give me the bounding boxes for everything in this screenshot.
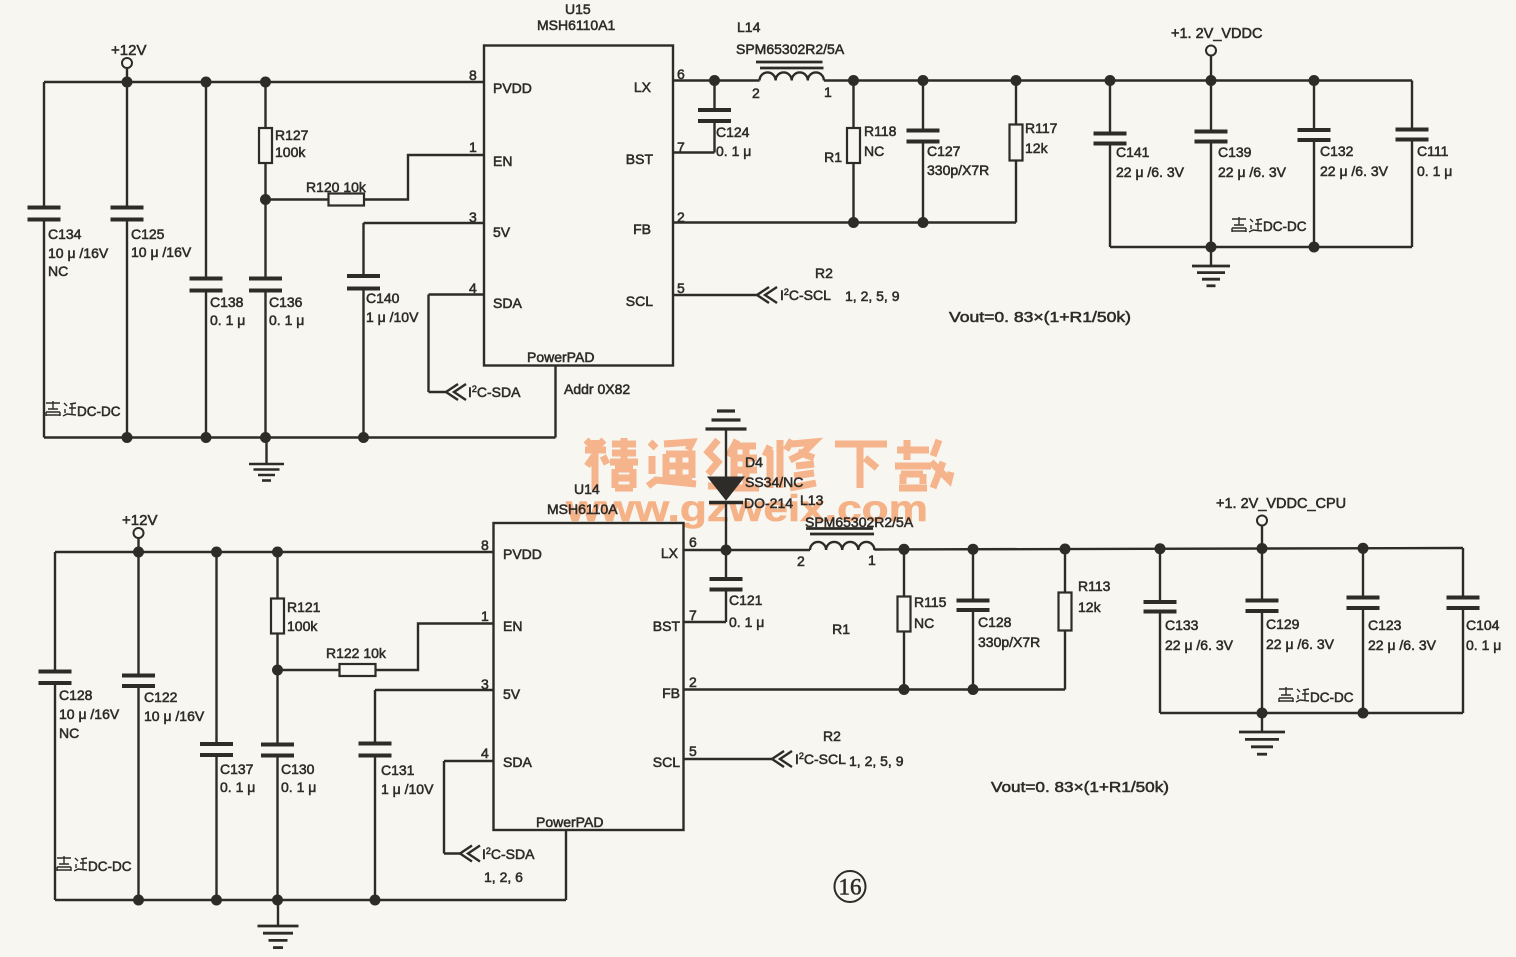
svg-text:6: 6: [689, 534, 697, 550]
node junction R127 bus: [260, 77, 271, 88]
svg-text:1: 1: [868, 552, 876, 568]
svg-text:1: 1: [469, 139, 477, 155]
ground symbol above D4 (inverted): [725, 431, 727, 478]
wire column C139: [1210, 81, 1212, 132]
svg-text:NC: NC: [48, 263, 68, 279]
resistor R122 10k: [340, 664, 376, 676]
svg-text:0. 1 μ: 0. 1 μ: [729, 614, 764, 630]
node junction C138 bus: [201, 77, 212, 88]
svg-text:Vout=0. 83×(1+R1/50k): Vout=0. 83×(1+R1/50k): [949, 309, 1131, 326]
svg-text:C130: C130: [281, 761, 315, 777]
svg-text:3: 3: [481, 676, 489, 692]
capacitor C131: [359, 742, 392, 746]
svg-text:BST: BST: [626, 151, 654, 167]
node junction C123 top: [1358, 543, 1369, 554]
capacitor C125: [111, 206, 144, 210]
svg-text:C139: C139: [1218, 144, 1252, 160]
node junction C139 top: [1206, 75, 1217, 86]
wire bottom output rail (bottom): [1160, 712, 1463, 714]
wire R121 top lead: [276, 552, 278, 599]
svg-text:0. 1 μ: 0. 1 μ: [1466, 637, 1501, 653]
svg-text:C129: C129: [1266, 616, 1300, 632]
wire 5V pin to C140: [364, 222, 485, 224]
svg-text:C123: C123: [1368, 617, 1402, 633]
node junction C127/FB: [918, 217, 929, 228]
wire R118 bottom lead: [852, 163, 854, 223]
wire bottom output rail (top): [1110, 246, 1412, 248]
node junction C129 top: [1257, 543, 1268, 554]
wire column C136: [264, 200, 266, 279]
svg-text:LX: LX: [661, 545, 679, 561]
node junction C124/LX: [709, 75, 720, 86]
svg-text:C140: C140: [366, 290, 400, 306]
svg-text:16: 16: [839, 875, 862, 900]
wire column C130: [276, 670, 278, 745]
label 靠近DC-DC (bottom output): [1279, 687, 1309, 702]
capacitor C128 330p/X7R: [957, 599, 990, 603]
svg-text:DC-DC: DC-DC: [1263, 219, 1307, 234]
wire column C133: [1159, 549, 1161, 602]
svg-text:0. 1 μ: 0. 1 μ: [269, 312, 304, 328]
svg-text:R122 10k: R122 10k: [326, 645, 387, 661]
wire column C131: [374, 690, 376, 744]
wire FB rail (bottom): [684, 688, 1066, 690]
capacitor C140: [347, 274, 380, 278]
svg-text:BST: BST: [653, 618, 681, 634]
wire +12V stem: [126, 68, 128, 82]
svg-text:0. 1 μ: 0. 1 μ: [1417, 163, 1452, 179]
I2C-SCL input arrow (top): [757, 287, 769, 303]
svg-text:4: 4: [481, 745, 489, 761]
svg-text:5V: 5V: [503, 686, 521, 702]
svg-text:I2C-SDA: I2C-SDA: [482, 846, 535, 862]
svg-text:22 μ /6. 3V: 22 μ /6. 3V: [1368, 637, 1437, 653]
capacitor C136: [249, 277, 282, 281]
node +12V terminal (bottom): [134, 528, 144, 538]
wire SCL pin (bottom): [684, 758, 774, 760]
wire C127 leads: [922, 81, 924, 131]
capacitor C134: [28, 206, 61, 210]
svg-text:Vout=0. 83×(1+R1/50k): Vout=0. 83×(1+R1/50k): [991, 779, 1169, 796]
svg-text:L13: L13: [800, 492, 824, 508]
label 靠近DC-DC (top-left, simplified strokes): [46, 401, 76, 416]
node junction C140 rail: [358, 432, 369, 443]
svg-text:C128: C128: [59, 687, 93, 703]
svg-text:NC: NC: [914, 615, 934, 631]
capacitor C133: [1144, 600, 1177, 604]
svg-text:22 μ /6. 3V: 22 μ /6. 3V: [1116, 164, 1185, 180]
svg-text:DO-214: DO-214: [744, 495, 793, 511]
wire column C141: [1109, 81, 1111, 134]
capacitor C132: [1298, 128, 1331, 132]
svg-text:1 μ /10V: 1 μ /10V: [381, 781, 434, 797]
svg-text:R127: R127: [275, 127, 309, 143]
svg-text:0. 1 μ: 0. 1 μ: [281, 779, 316, 795]
capacitor C129: [1246, 599, 1279, 603]
node junction C128b top: [968, 544, 979, 555]
svg-text:SCL: SCL: [653, 754, 680, 770]
wire column C125: [126, 82, 128, 208]
resistor R117 12k: [1010, 125, 1023, 161]
svg-text:8: 8: [469, 67, 477, 83]
capacitor C128 10u: [39, 670, 72, 674]
resistor R118 (NC): [847, 128, 860, 163]
svg-text:DC-DC: DC-DC: [77, 404, 121, 419]
svg-text:330p/X7R: 330p/X7R: [978, 634, 1040, 650]
svg-text:C141: C141: [1116, 144, 1150, 160]
node junction C139 bottom: [1206, 242, 1217, 253]
wire column C123: [1362, 548, 1364, 597]
node junction R127/R120: [260, 194, 271, 205]
svg-text:1: 1: [824, 84, 832, 100]
wire column C111: [1411, 81, 1413, 130]
node junction C136 rail: [260, 432, 271, 443]
svg-text:12k: 12k: [1025, 140, 1049, 156]
svg-text:SDA: SDA: [503, 754, 532, 770]
node junction C132 top: [1309, 75, 1320, 86]
svg-text:C136: C136: [269, 294, 303, 310]
I2C-SCL input arrow (bottom): [772, 751, 784, 767]
capacitor C141: [1094, 132, 1127, 136]
capacitor C122: [122, 674, 155, 678]
svg-text:22 μ /6. 3V: 22 μ /6. 3V: [1320, 163, 1389, 179]
svg-text:100k: 100k: [287, 618, 318, 634]
svg-text:EN: EN: [503, 618, 522, 634]
svg-text:C122: C122: [144, 689, 178, 705]
node junction C132 bottom: [1309, 242, 1320, 253]
wire R127 top lead: [264, 82, 266, 128]
node junction C133 top: [1155, 543, 1166, 554]
IC U14 MSH6110A box: [494, 523, 684, 830]
svg-text:SCL: SCL: [626, 293, 653, 309]
node junction R118/LX: [848, 75, 859, 86]
svg-text:R2: R2: [815, 265, 833, 281]
wire +12V bus (bottom): [55, 551, 494, 553]
svg-text:5: 5: [689, 743, 697, 759]
svg-text:U15: U15: [565, 1, 591, 17]
node junction C127 top: [918, 75, 929, 86]
svg-text:R2: R2: [823, 728, 841, 744]
wire R115 top lead: [903, 549, 905, 596]
wire C128b leads: [972, 549, 974, 600]
svg-text:FB: FB: [633, 221, 651, 237]
svg-text:C111: C111: [1417, 143, 1449, 159]
svg-text:C137: C137: [220, 761, 254, 777]
svg-text:7: 7: [689, 607, 697, 623]
svg-text:Addr 0X82: Addr 0X82: [564, 381, 630, 397]
node junction C141 top: [1105, 75, 1116, 86]
wire +12V stem (bottom): [137, 538, 139, 552]
svg-text:R121: R121: [287, 599, 321, 615]
svg-text:SS34/NC: SS34/NC: [745, 474, 803, 490]
svg-text:5: 5: [677, 280, 685, 296]
svg-text:100k: 100k: [275, 144, 306, 160]
svg-text:22 μ /6. 3V: 22 μ /6. 3V: [1266, 636, 1335, 652]
svg-text:NC: NC: [864, 143, 884, 159]
svg-text:PowerPAD: PowerPAD: [527, 349, 594, 365]
ground symbol output (top): [1210, 247, 1212, 265]
svg-text:10 μ /16V: 10 μ /16V: [131, 244, 192, 260]
node junction R118/FB: [848, 217, 859, 228]
svg-text:C125: C125: [131, 226, 165, 242]
svg-text:C132: C132: [1320, 143, 1354, 159]
node junction +12V bus (bottom): [133, 547, 144, 558]
capacitor C123: [1347, 596, 1380, 600]
svg-text:I2C-SCL: I2C-SCL: [795, 751, 846, 767]
svg-text:10 μ /16V: 10 μ /16V: [48, 245, 109, 261]
node junction R117 top: [1011, 75, 1022, 86]
svg-text:1, 2, 5, 9: 1, 2, 5, 9: [845, 288, 900, 304]
wire 5V pin to C131: [375, 689, 494, 691]
svg-text:R1: R1: [824, 149, 842, 165]
svg-text:R117: R117: [1025, 120, 1058, 136]
node junction +12V/bus: [122, 77, 133, 88]
wire column C129: [1261, 549, 1263, 601]
resistor R113 12k: [1059, 593, 1072, 631]
svg-text:2: 2: [689, 674, 697, 690]
capacitor C138: [190, 277, 223, 281]
resistor R115 (NC): [898, 597, 911, 632]
svg-text:NC: NC: [59, 725, 79, 741]
svg-text:C134: C134: [48, 226, 82, 242]
wire R115 bottom lead: [903, 632, 905, 690]
node junction R115/FB: [899, 684, 910, 695]
svg-text:MSH6110A: MSH6110A: [547, 501, 618, 517]
svg-text:5V: 5V: [493, 224, 511, 240]
wire C121 bottom / BST: [725, 590, 727, 623]
capacitor C111: [1396, 128, 1429, 132]
ground symbol output (bottom): [1261, 713, 1263, 731]
svg-text:PowerPAD: PowerPAD: [536, 814, 603, 830]
svg-text:2: 2: [797, 553, 805, 569]
ground symbol below rail (top circuit): [265, 438, 267, 464]
node junction R113 top: [1060, 544, 1071, 555]
diode D4 SS34/NC: [708, 477, 744, 500]
capacitor C139: [1195, 130, 1228, 134]
svg-text:R115: R115: [914, 594, 947, 610]
node junction R121/R122: [272, 665, 283, 676]
wire terminal stem (CPU): [1261, 526, 1263, 549]
wire R120 left lead: [266, 198, 329, 200]
wire column C104: [1462, 548, 1464, 598]
label 靠近DC-DC (top output): [1232, 217, 1262, 232]
svg-text:FB: FB: [662, 685, 680, 701]
wire R118 top lead: [852, 81, 854, 129]
svg-text:C138: C138: [210, 294, 244, 310]
svg-text:R1: R1: [832, 621, 850, 637]
inductor L14 SPM65302R2/5A: [760, 72, 824, 80]
wire C124 bottom lead / BST: [713, 121, 715, 153]
node junction C131 rail: [370, 895, 381, 906]
capacitor C127 330p/X7R: [907, 129, 940, 133]
svg-text:R118: R118: [864, 123, 897, 139]
resistor R121 100k: [271, 599, 284, 634]
wire C124 top lead: [713, 81, 715, 111]
wire FB rail (top): [673, 221, 1016, 223]
svg-text:+12V: +12V: [111, 42, 146, 59]
node junction C137 rail: [211, 895, 222, 906]
node junction D4/C121/LX: [721, 545, 732, 556]
svg-text:22 μ /6. 3V: 22 μ /6. 3V: [1165, 637, 1234, 653]
svg-text:SPM65302R2/5A: SPM65302R2/5A: [736, 41, 845, 57]
svg-text:+12V: +12V: [122, 512, 157, 529]
wire D4 to LX node: [725, 503, 727, 551]
ground symbol below rail (bottom circuit): [277, 900, 279, 925]
wire LX output (top): [673, 79, 760, 81]
node junction C128b/FB: [968, 684, 979, 695]
svg-text:10 μ /16V: 10 μ /16V: [59, 706, 120, 722]
svg-text:C128: C128: [978, 614, 1012, 630]
I2C-SDA input arrow (bottom): [460, 846, 472, 862]
svg-text:R113: R113: [1078, 578, 1111, 594]
wire column C140: [362, 223, 364, 276]
wire R122 to EN pin: [376, 624, 494, 671]
svg-text:I2C-SDA: I2C-SDA: [468, 384, 521, 400]
capacitor C104: [1447, 596, 1480, 600]
svg-text:10 μ /16V: 10 μ /16V: [144, 708, 205, 724]
svg-text:PVDD: PVDD: [493, 80, 532, 96]
svg-text:DC-DC: DC-DC: [88, 859, 132, 874]
svg-text:0. 1 μ: 0. 1 μ: [716, 143, 751, 159]
wire R127 bottom lead: [264, 163, 266, 200]
node +12V terminal (top): [122, 58, 132, 68]
wire column C132: [1313, 81, 1315, 131]
label 靠近DC-DC (bottom-left): [57, 856, 87, 871]
svg-text:LX: LX: [634, 79, 652, 95]
node junction C129 bottom: [1257, 708, 1268, 719]
svg-text:1: 1: [481, 608, 489, 624]
resistor R120 10k: [329, 194, 365, 206]
wire terminal stem: [1210, 56, 1212, 81]
svg-text:DC-DC: DC-DC: [1310, 690, 1354, 705]
svg-text:I2C-SCL: I2C-SCL: [780, 287, 831, 303]
svg-text:+1. 2V_VDDC_CPU: +1. 2V_VDDC_CPU: [1216, 496, 1346, 512]
node junction C125 rail: [122, 432, 133, 443]
capacitor C121: [710, 577, 743, 581]
wire SCL pin (top): [673, 294, 758, 296]
wire bottom ground rail (bottom circuit): [55, 899, 566, 901]
watermark line1: simplified strokes for Chinese chars: [585, 438, 951, 490]
svg-text:1, 2, 5, 9: 1, 2, 5, 9: [849, 753, 904, 769]
svg-text:12k: 12k: [1078, 599, 1102, 615]
svg-text:0. 1 μ: 0. 1 μ: [220, 779, 255, 795]
svg-text:R120 10k: R120 10k: [306, 179, 367, 195]
svg-text:3: 3: [469, 209, 477, 225]
capacitor C130: [261, 743, 294, 747]
node junction C137 bus: [211, 547, 222, 558]
wire column C122: [137, 552, 139, 676]
wire R113 leads: [1064, 549, 1066, 593]
I2C-SDA input arrow (top): [446, 384, 458, 400]
wire PowerPAD pin to ground rail: [554, 366, 556, 438]
svg-text:C124: C124: [716, 124, 750, 140]
svg-text:22 μ /6. 3V: 22 μ /6. 3V: [1218, 164, 1287, 180]
IC U15 MSH6110A1 box: [484, 46, 673, 366]
wire SDA routing (bottom): [444, 760, 494, 762]
svg-text:C104: C104: [1466, 617, 1500, 633]
svg-text:8: 8: [481, 537, 489, 553]
node junction C122 rail: [133, 895, 144, 906]
wire R121 bottom lead: [276, 634, 278, 671]
svg-text:SPM65302R2/5A: SPM65302R2/5A: [805, 514, 914, 530]
wire column C138: [205, 82, 207, 279]
wire LX output (bottom): [684, 549, 811, 551]
svg-text:SDA: SDA: [493, 295, 522, 311]
svg-text:PVDD: PVDD: [503, 546, 542, 562]
node junction C130 rail: [272, 895, 283, 906]
svg-text:+1. 2V_VDDC: +1. 2V_VDDC: [1171, 26, 1262, 42]
wire left column C128: [54, 552, 56, 672]
wire PowerPAD pin to rail (bottom): [565, 830, 567, 900]
svg-text:U14: U14: [574, 481, 600, 497]
wire R120 to EN pin: [364, 155, 484, 200]
capacitor C137: [200, 742, 233, 746]
node junction C138 rail: [201, 432, 212, 443]
svg-text:C121: C121: [729, 592, 763, 608]
node +1.2V_VDDC terminal: [1206, 46, 1216, 56]
svg-text:C133: C133: [1165, 617, 1199, 633]
wire R122 left lead: [278, 669, 340, 671]
svg-text:C127: C127: [927, 143, 961, 159]
svg-text:1 μ /10V: 1 μ /10V: [366, 309, 419, 325]
wire top +12V bus: [44, 81, 484, 83]
node junction R115/LX: [899, 544, 910, 555]
wire SDA routing to I2C-SDA: [429, 293, 485, 295]
inductor L13 SPM65302R2/5A: [810, 542, 874, 550]
node junction C123 bottom: [1358, 708, 1369, 719]
node +1.2V_VDDC_CPU terminal: [1257, 516, 1267, 526]
wire bottom ground rail (top circuit): [44, 436, 556, 438]
resistor R127 100k: [259, 128, 272, 163]
svg-text:D4: D4: [745, 454, 763, 470]
wire C121 top lead: [725, 550, 727, 579]
svg-text:330p/X7R: 330p/X7R: [927, 162, 989, 178]
capacitor C124: [698, 108, 731, 112]
page number 16 circled: [835, 871, 866, 902]
svg-text:1, 2, 6: 1, 2, 6: [484, 869, 523, 885]
svg-text:4: 4: [469, 280, 477, 296]
wire R117 leads: [1015, 81, 1017, 125]
svg-text:0. 1 μ: 0. 1 μ: [210, 312, 245, 328]
svg-text:2: 2: [752, 85, 760, 101]
svg-text:MSH6110A1: MSH6110A1: [537, 17, 616, 33]
node junction R121 bus: [272, 547, 283, 558]
wire column C137: [215, 552, 217, 744]
svg-text:C131: C131: [381, 762, 415, 778]
wire left column C134: [43, 82, 45, 208]
svg-text:EN: EN: [493, 153, 512, 169]
svg-text:L14: L14: [737, 19, 761, 35]
